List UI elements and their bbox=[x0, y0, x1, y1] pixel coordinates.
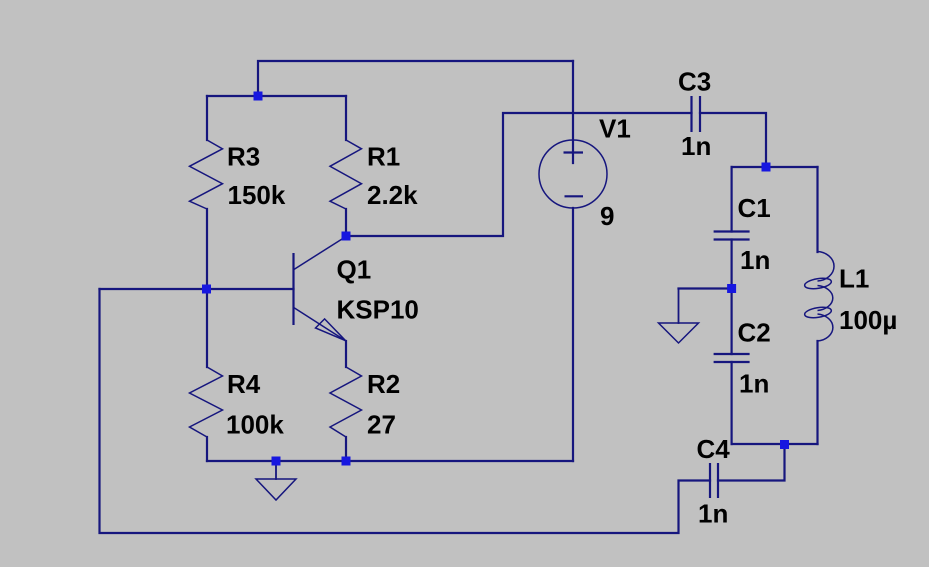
svg-text:100µ: 100µ bbox=[839, 305, 897, 335]
inductor L1 coil bbox=[818, 252, 835, 342]
wire R4 bottom lead bbox=[206, 437, 208, 461]
node junction R2 emitter bbox=[342, 457, 351, 466]
node junction collector bbox=[342, 232, 351, 241]
wire R1 bottom lead bbox=[345, 209, 347, 236]
wire R2 bottom lead bbox=[345, 437, 347, 461]
svg-text:C4: C4 bbox=[697, 434, 731, 464]
capacitor C4 plates bbox=[709, 463, 711, 498]
svg-text:9: 9 bbox=[600, 201, 614, 231]
wire feedback loop left bbox=[100, 289, 711, 533]
svg-text:C2: C2 bbox=[738, 318, 771, 348]
svg-text:KSP10: KSP10 bbox=[337, 295, 419, 325]
resistor R4 bbox=[190, 367, 223, 437]
wire L1 bottom lead bbox=[816, 341, 818, 444]
svg-text:L1: L1 bbox=[839, 264, 869, 294]
svg-text:150k: 150k bbox=[228, 180, 286, 210]
wire L1 top lead bbox=[816, 167, 818, 252]
wire C1-L1 top rail bbox=[732, 166, 818, 168]
wire V1 bottom bbox=[572, 208, 574, 461]
wire R4 top lead bbox=[206, 289, 208, 367]
resistor R3 bbox=[190, 140, 223, 209]
wire bottom right rail bbox=[732, 443, 818, 445]
node junction base bbox=[202, 285, 211, 294]
svg-text:R1: R1 bbox=[367, 142, 400, 172]
svg-text:R4: R4 bbox=[227, 369, 261, 399]
svg-text:C1: C1 bbox=[738, 193, 771, 223]
wire C1 bottom lead bbox=[730, 240, 732, 289]
wire R3 top lead bbox=[206, 96, 208, 140]
svg-text:1n: 1n bbox=[739, 369, 769, 399]
V1 minus sign bbox=[565, 195, 584, 197]
wire C3 right to node bbox=[700, 113, 766, 167]
transistor Q1 emitter arrow bbox=[316, 319, 346, 341]
ground gnd1 bbox=[256, 479, 296, 500]
wire bottom rail bbox=[207, 460, 573, 462]
wire emitter lead bbox=[345, 341, 347, 367]
resistor R2 bbox=[330, 367, 362, 437]
transistor Q1 collector bbox=[294, 237, 347, 270]
svg-text:R2: R2 bbox=[367, 369, 400, 399]
wire gnd2 tap bbox=[679, 287, 732, 289]
svg-text:Q1: Q1 bbox=[337, 255, 372, 285]
wire collector node to C3 bbox=[346, 113, 692, 236]
capacitor C3 plates bbox=[690, 96, 692, 132]
svg-text:1n: 1n bbox=[681, 131, 711, 161]
wire gnd1 stub bbox=[275, 461, 277, 479]
ground gnd2 bbox=[659, 323, 699, 343]
svg-text:C3: C3 bbox=[678, 66, 711, 96]
svg-text:2.2k: 2.2k bbox=[367, 180, 418, 210]
node junction C1-C2 gnd bbox=[727, 284, 736, 293]
wire R3-R1 top rail bbox=[207, 95, 346, 97]
svg-text:R3: R3 bbox=[227, 142, 260, 172]
capacitor C1 plates bbox=[714, 230, 750, 232]
svg-text:1n: 1n bbox=[698, 499, 728, 529]
resistor R1 bbox=[330, 140, 362, 209]
wire base bbox=[100, 288, 294, 290]
svg-text:100k: 100k bbox=[226, 410, 284, 440]
node junction C3 tank top bbox=[762, 163, 771, 172]
voltage source V1 circle bbox=[539, 140, 607, 208]
node junction tank bottom C4 bbox=[780, 440, 789, 449]
svg-text:V1: V1 bbox=[599, 114, 631, 144]
transistor Q1 emitter bbox=[294, 307, 346, 340]
wire C2 top lead bbox=[730, 289, 732, 355]
transistor Q1 base bar bbox=[292, 253, 294, 325]
node junction bottom rail gnd tap bbox=[272, 457, 281, 466]
wire R3 bottom lead bbox=[206, 209, 208, 289]
wire R1 top lead bbox=[345, 96, 347, 140]
V1 plus sign bbox=[564, 151, 584, 153]
node junction supply rail bbox=[254, 92, 263, 101]
wire V1 top bbox=[572, 61, 574, 163]
svg-text:27: 27 bbox=[367, 410, 396, 440]
wire C4 right to node bbox=[718, 444, 785, 481]
capacitor C2 plates bbox=[714, 353, 750, 355]
wire top rail bbox=[258, 61, 573, 96]
wire C1 top lead bbox=[730, 167, 732, 232]
svg-text:1n: 1n bbox=[740, 245, 770, 275]
wire C2 bottom lead bbox=[730, 362, 732, 444]
